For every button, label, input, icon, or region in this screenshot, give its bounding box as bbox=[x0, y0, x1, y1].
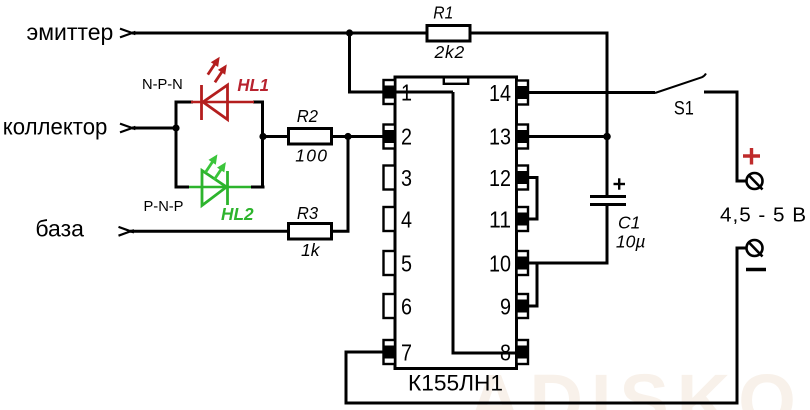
svg-text:3: 3 bbox=[401, 165, 412, 191]
resistor R1 bbox=[427, 26, 470, 42]
node коллектор input fork bbox=[120, 124, 136, 133]
pin 13 bbox=[489, 124, 528, 150]
svg-text:R1: R1 bbox=[433, 3, 453, 23]
svg-text:R2: R2 bbox=[297, 106, 318, 126]
pin 4 bbox=[384, 207, 413, 233]
node база input fork bbox=[119, 227, 135, 236]
svg-text:9: 9 bbox=[500, 294, 511, 320]
resistor R2 bbox=[289, 129, 332, 145]
svg-text:13: 13 bbox=[489, 124, 511, 150]
node junction emitter/pin1 bbox=[346, 29, 353, 36]
wire pin 14 to switch bbox=[528, 91, 655, 94]
node junction pin13/C1 bbox=[603, 133, 611, 141]
pin 1 bbox=[384, 80, 413, 106]
svg-text:14: 14 bbox=[489, 80, 511, 106]
svg-text:R3: R3 bbox=[297, 203, 318, 223]
svg-text:S1: S1 bbox=[674, 99, 694, 120]
svg-text:12: 12 bbox=[489, 165, 511, 191]
LED HL1 arrows bbox=[208, 57, 227, 83]
svg-text:10: 10 bbox=[489, 251, 511, 277]
node junction R2/R3/pin2 bbox=[344, 133, 351, 140]
wire emitter to pin 1 bbox=[350, 33, 454, 92]
svg-text:10µ: 10µ bbox=[616, 232, 646, 252]
IC notch bbox=[444, 77, 468, 84]
switch S1 fixed contact wire bbox=[704, 92, 746, 181]
svg-text:HL1: HL1 bbox=[237, 75, 269, 95]
node junction LED loop/R2 bbox=[259, 133, 266, 140]
svg-text:2: 2 bbox=[401, 124, 412, 150]
svg-text:6: 6 bbox=[401, 294, 412, 320]
wire pin 1 to pin 8 internal bbox=[453, 92, 528, 353]
svg-text:11: 11 bbox=[489, 207, 511, 233]
resistor R3 bbox=[289, 224, 332, 240]
terminal minus bbox=[747, 240, 763, 257]
svg-text:4,5 - 5 В: 4,5 - 5 В bbox=[720, 204, 806, 227]
op IC body K155LN1 bbox=[395, 77, 517, 369]
wire LED bottom row black parts bbox=[176, 186, 189, 189]
wire junction down to R3 bbox=[332, 137, 348, 232]
wire emitter horizontal bbox=[132, 32, 427, 35]
pin 14 bbox=[489, 80, 528, 106]
wire minus terminal to pin 7 bbox=[346, 248, 746, 403]
LED HL2 green bbox=[189, 171, 251, 206]
plus sign supply bbox=[743, 148, 760, 165]
pin 2 bbox=[384, 124, 413, 150]
svg-text:4: 4 bbox=[401, 207, 412, 233]
pin 10 bbox=[489, 251, 528, 277]
svg-text:1: 1 bbox=[401, 80, 412, 106]
pin 7 bbox=[384, 340, 413, 366]
wire pin 13 to rail bbox=[528, 135, 607, 138]
wire C1 to pin 10 bbox=[528, 205, 607, 264]
svg-text:C1: C1 bbox=[618, 213, 640, 233]
terminal plus bbox=[747, 173, 763, 190]
switch S1 blade bbox=[655, 74, 706, 94]
C1 plus mark bbox=[614, 178, 626, 189]
capacitor C1 plates bbox=[590, 197, 626, 205]
svg-text:5: 5 bbox=[401, 251, 412, 277]
node эмиттер input fork bbox=[120, 29, 136, 38]
wire to R2 bbox=[263, 135, 288, 138]
pin 8 bbox=[500, 340, 528, 366]
svg-text:2k2: 2k2 bbox=[434, 42, 465, 62]
svg-text:база: база bbox=[35, 216, 84, 242]
pin 11 bbox=[489, 207, 528, 233]
wire R1 right to supply rail bbox=[470, 33, 607, 197]
minus sign supply bbox=[746, 268, 766, 271]
pin 12 bbox=[489, 165, 528, 191]
pin 3 bbox=[384, 165, 413, 191]
pin 5 bbox=[384, 251, 413, 277]
svg-text:HL2: HL2 bbox=[221, 204, 254, 224]
wire LED loop right vertical bbox=[261, 101, 264, 189]
svg-text:К155ЛН1: К155ЛН1 bbox=[408, 371, 503, 396]
LED HL2 arrows bbox=[206, 154, 226, 180]
node junction collector/LED loop bbox=[172, 124, 179, 131]
wire bracket pins 12-11 bbox=[528, 178, 537, 220]
LED HL1 red bbox=[191, 85, 254, 120]
wire collector bbox=[132, 127, 176, 130]
svg-text:100: 100 bbox=[295, 146, 327, 166]
svg-text:N-P-N: N-P-N bbox=[142, 77, 183, 93]
wire LED top row black parts bbox=[175, 101, 194, 104]
svg-text:P-N-P: P-N-P bbox=[144, 199, 184, 215]
wire base to R3 bbox=[130, 230, 288, 233]
wire bracket pins 9-10 bbox=[528, 263, 537, 306]
svg-text:эмиттер: эмиттер bbox=[27, 19, 114, 45]
svg-text:7: 7 bbox=[401, 340, 412, 366]
wire LED loop left vertical bbox=[175, 101, 178, 189]
svg-text:1k: 1k bbox=[301, 240, 321, 260]
pin 6 bbox=[384, 294, 413, 320]
pin 9 bbox=[500, 294, 528, 320]
svg-text:8: 8 bbox=[500, 340, 511, 366]
wire R2 to pin 2 bbox=[332, 135, 384, 138]
svg-text:коллектор: коллектор bbox=[3, 114, 108, 140]
